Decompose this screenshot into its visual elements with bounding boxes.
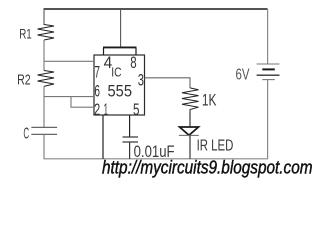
svg-text:7: 7 <box>94 63 100 82</box>
wire pin 2 jog <box>71 97 94 108</box>
svg-text:555: 555 <box>108 82 133 101</box>
wire pin 6 to left column <box>44 96 94 98</box>
capacitor C <box>31 126 57 128</box>
svg-text:1: 1 <box>104 100 109 119</box>
battery BT1 plate long top <box>257 63 280 65</box>
svg-text:8: 8 <box>130 53 136 72</box>
wire R2 to capacitor C <box>43 86 45 127</box>
LED D1 cathode bar <box>179 134 199 136</box>
svg-text:5: 5 <box>133 100 140 119</box>
wire pin 3 to 1K <box>145 78 191 88</box>
resistor R1 <box>38 25 55 41</box>
wire pin 1 to ground rail <box>102 115 104 159</box>
svg-text:6: 6 <box>94 82 100 101</box>
LED D1 IR LED triangle <box>180 127 199 135</box>
battery BT1 plate short dark <box>262 68 275 70</box>
wire right column lower (battery -) <box>267 80 269 159</box>
svg-text:6V: 6V <box>236 67 250 84</box>
op-amp/timer IC U1 555 box <box>94 55 145 115</box>
battery BT1 plate short bottom <box>262 79 275 81</box>
wire R1 to R2 (pin7 junction) <box>43 40 45 71</box>
wire pin 5 to capacitor C2 <box>129 115 131 137</box>
wire LED to bottom rail <box>189 135 191 158</box>
wire top rail <box>44 8 268 10</box>
svg-text:IC: IC <box>111 64 121 79</box>
svg-text:R2: R2 <box>17 73 31 89</box>
wire left column upper <box>43 9 45 25</box>
IC power bracket pins 4,8 <box>103 47 137 55</box>
wire pin 7 to left column <box>44 60 94 62</box>
svg-text:IR LED: IR LED <box>197 138 234 155</box>
wire top rail to IC bracket <box>120 9 122 47</box>
capacitor C2 0.01uF <box>123 136 139 138</box>
svg-text:2: 2 <box>94 100 100 119</box>
svg-text:3: 3 <box>138 71 144 90</box>
resistor R2 <box>38 71 55 87</box>
svg-text:R1: R1 <box>19 25 32 41</box>
wire bottom rail <box>44 158 269 160</box>
wire 1K to LED <box>189 112 191 127</box>
svg-text:1K: 1K <box>202 91 217 109</box>
svg-text:http://mycircuits9.blogspot.co: http://mycircuits9.blogspot.com <box>102 158 313 178</box>
wire C to bottom rail <box>43 134 45 158</box>
wire C2 to bottom rail <box>129 142 131 159</box>
battery BT1 plate long lower <box>257 74 280 76</box>
wire right column upper (battery +) <box>267 9 269 64</box>
svg-text:C: C <box>23 126 29 143</box>
resistor R3 1K <box>182 88 199 112</box>
